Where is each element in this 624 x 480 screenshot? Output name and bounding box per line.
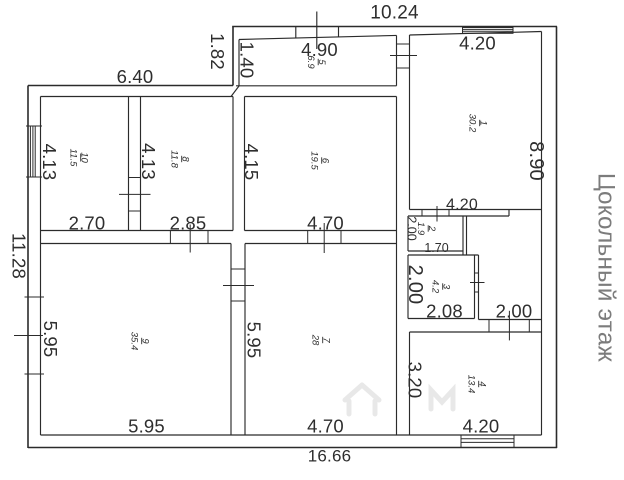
svg-text:1.9: 1.9 (415, 222, 426, 236)
room 10 box (128, 97, 130, 231)
left wall opening of room 9: centerline (14, 335, 43, 337)
room 1 area label 1/30.2 (467, 114, 489, 133)
left wall opening of room 9: ticks (25, 296, 45, 298)
opening ticks on room 3 right wall (475, 272, 479, 274)
door opening ticks between room 8 and room 9 (169, 231, 171, 244)
door opening centerline at room 4 top (508, 311, 510, 341)
inner wall line: right side (541, 32, 543, 436)
inner wall line: top-left section (41, 96, 234, 98)
svg-text:30.2: 30.2 (467, 114, 478, 133)
wall between rooms 10,8 and room 9: upper line (41, 230, 234, 232)
room 9 right wall (230, 244, 232, 436)
svg-text:2.00: 2.00 (496, 301, 533, 322)
room 1 bottom wall lower line (408, 215, 509, 217)
room 8 right wall (232, 97, 234, 231)
top window of room 5: pane divider 3 (338, 27, 340, 37)
svg-text:1.82: 1.82 (207, 33, 228, 70)
room 5 area label 5/6.9 (305, 55, 327, 69)
svg-text:2.08: 2.08 (426, 301, 463, 322)
door opening ticks at room 2 top (421, 210, 423, 217)
wall between rooms: lower line (41, 243, 232, 245)
svg-text:8.90: 8.90 (525, 141, 547, 181)
window ticks (26, 125, 42, 127)
outer wall: step vertical (232, 27, 234, 86)
hall bottom wall upper line (479, 319, 542, 321)
top window of room 1 (hatched) (463, 28, 514, 34)
door opening centerline between room 6 and room 7 (323, 223, 325, 253)
door opening ticks between room 6 and room 7 (307, 231, 309, 244)
room 9 area label 9/35.4 (129, 332, 151, 351)
room 1 bottom wall upper line (410, 209, 542, 211)
outer wall: top horizontal (232, 26, 557, 28)
room 7 left wall (244, 244, 246, 436)
svg-text:5.95: 5.95 (128, 416, 165, 437)
svg-text:4.13: 4.13 (138, 143, 159, 180)
svg-text:2.85: 2.85 (170, 213, 207, 234)
room 5 / room 1 wall left line (396, 35, 398, 85)
svg-text:1.70: 1.70 (424, 241, 448, 255)
room 4 top wall lower line (410, 331, 542, 333)
room 3 right wall hall-side line (478, 255, 480, 320)
svg-text:4.2: 4.2 (430, 280, 441, 294)
svg-text:35.4: 35.4 (129, 332, 140, 351)
door opening centerline at room 2 top (436, 206, 438, 222)
svg-text:3.20: 3.20 (405, 362, 426, 399)
svg-text:13.4: 13.4 (466, 375, 477, 394)
room 6 top wall (245, 96, 397, 98)
svg-text:11.28: 11.28 (9, 233, 30, 279)
inner wall line: left side (40, 97, 42, 436)
door opening ticks between room 5 and room 1 (397, 43, 410, 45)
room 4 area label 4/13.4 (466, 375, 488, 394)
corner diagonal joint (231, 86, 239, 97)
svg-text:6.40: 6.40 (117, 66, 154, 87)
door opening ticks at room 4 top (488, 320, 490, 333)
room 2 box (407, 216, 409, 251)
svg-text:4.20: 4.20 (463, 416, 500, 437)
room 8 left wall (140, 97, 142, 231)
room 8 area label 8/11.8 (169, 150, 191, 169)
svg-text:28: 28 (310, 334, 321, 346)
room 6 left wall (244, 97, 246, 231)
room 5 bottom wall (236, 85, 397, 87)
svg-text:4.20: 4.20 (459, 33, 496, 54)
door opening centerline between room 10 and room 8 (119, 193, 151, 195)
room 6 area label 6/19.5 (309, 151, 331, 170)
svg-text:11.5: 11.5 (68, 149, 79, 168)
door opening ticks between room 10 and room 8 (129, 177, 141, 179)
watermark letter м (431, 390, 453, 409)
svg-text:6.9: 6.9 (305, 55, 316, 69)
outer wall: right vertical (556, 27, 558, 449)
door opening centerline between room 5 and room 1 (390, 55, 417, 57)
room 1 left wall (409, 35, 411, 210)
watermark house icon (345, 385, 379, 414)
opening centerline between room 9 and room 7 (223, 285, 254, 287)
outer wall: top-left horizontal (28, 85, 233, 87)
svg-text:4.13: 4.13 (39, 144, 60, 181)
room 2 area label 2/1.9 (415, 222, 437, 236)
inner wall line: bottom (41, 434, 542, 436)
opening centerline on room 3 right wall (470, 282, 485, 284)
bottom window of room 4 (hatched) (461, 435, 514, 448)
inner wall line: sloped top (room 1) (410, 32, 542, 36)
svg-text:2.70: 2.70 (69, 213, 106, 234)
room 7 area label 7/28 (310, 334, 332, 346)
room 3 box (408, 254, 479, 256)
room 4 left wall (409, 332, 411, 435)
room 6 right wall / room 7 right wall (396, 97, 398, 436)
top window of room 5: pane divider 1 (295, 27, 297, 39)
opening ticks between room 9 and room 7 (231, 268, 245, 270)
svg-text:4.15: 4.15 (241, 144, 262, 181)
door opening centerline between room 8 and room 9 (189, 225, 191, 253)
top window of room 5: pane divider 2 / dimension divider (316, 12, 318, 50)
svg-text:19.5: 19.5 (309, 151, 320, 170)
svg-text:Цокольный этаж: Цокольный этаж (593, 173, 620, 363)
room 5 left wall (238, 40, 240, 86)
svg-text:5.95: 5.95 (40, 321, 61, 358)
inner wall line: sloped top (room 5 / room 6 side) (239, 35, 397, 39)
outer wall: bottom horizontal (28, 447, 557, 449)
svg-text:4.70: 4.70 (307, 416, 344, 437)
svg-text:1.40: 1.40 (237, 42, 258, 79)
room 2 right wall hall-side line (466, 216, 468, 255)
svg-text:4.20: 4.20 (446, 196, 478, 213)
svg-text:4.70: 4.70 (307, 213, 344, 234)
svg-text:10.24: 10.24 (370, 3, 419, 24)
svg-text:2.00: 2.00 (404, 265, 426, 305)
outer wall: left vertical (27, 86, 29, 449)
wall end cap (508, 210, 510, 217)
room 3 area label 3/4.2 (430, 280, 452, 294)
left wall window of room 10 (hatched) (29, 126, 31, 177)
svg-text:16.66: 16.66 (308, 447, 352, 466)
room 10 area label 10/11.5 (68, 149, 90, 168)
svg-text:11.8: 11.8 (169, 150, 180, 169)
svg-text:5.95: 5.95 (244, 322, 265, 359)
